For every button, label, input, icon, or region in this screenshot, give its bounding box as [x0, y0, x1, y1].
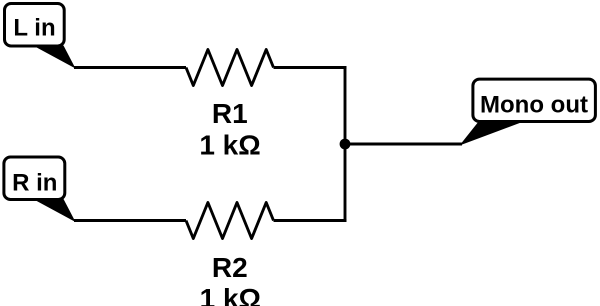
svg-text:Mono out: Mono out	[480, 91, 588, 118]
junction node dot	[340, 139, 351, 150]
svg-text:1 kΩ: 1 kΩ	[199, 129, 260, 160]
wire L in to R1	[74, 66, 186, 69]
wire node to Mono out	[345, 143, 462, 146]
svg-text:R in: R in	[12, 169, 57, 196]
node flag tail L in	[33, 46, 76, 69]
node flag box L in	[5, 4, 65, 47]
node flag tail R in	[33, 199, 76, 222]
svg-text:R2: R2	[212, 252, 248, 283]
wire R in to R2	[74, 219, 186, 222]
resistor R2	[186, 203, 274, 239]
svg-text:1 kΩ: 1 kΩ	[200, 283, 261, 306]
resistor R1	[186, 50, 274, 86]
wire R1 to node	[274, 66, 347, 69]
svg-text:R1: R1	[212, 98, 248, 129]
wire vertical node column	[344, 66, 347, 222]
node flag tail Mono out	[460, 121, 526, 146]
node flag box R in	[4, 157, 65, 200]
svg-text:L in: L in	[13, 15, 55, 42]
node flag box Mono out	[473, 79, 596, 121]
wire R2 to node	[274, 219, 347, 222]
